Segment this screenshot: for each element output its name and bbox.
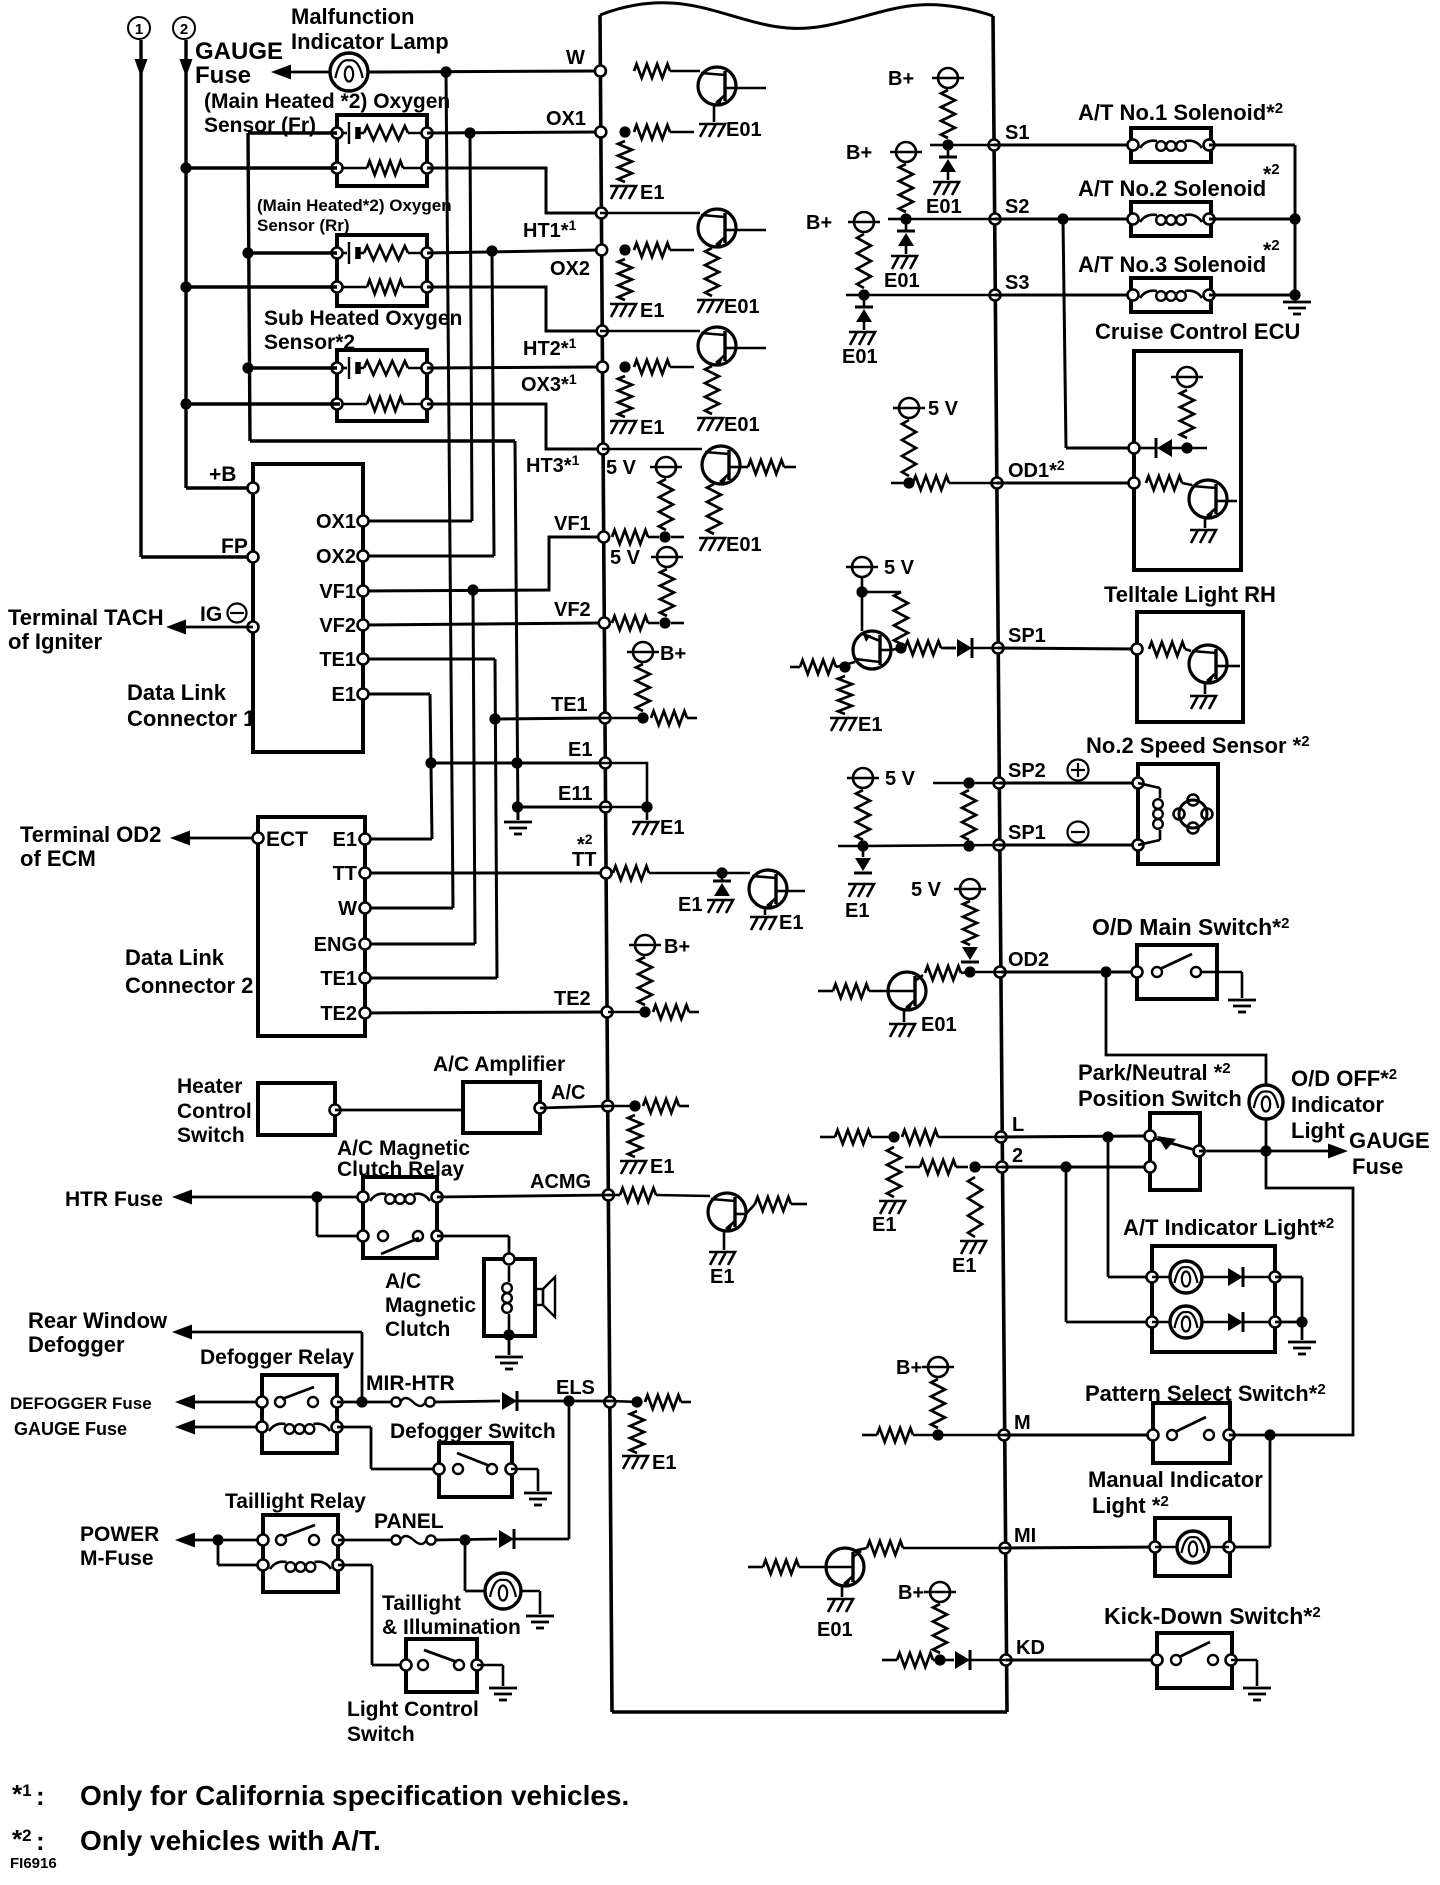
svg-text:Indicator Lamp: Indicator Lamp (291, 29, 449, 54)
svg-text:E01: E01 (726, 534, 762, 556)
resistor VF1 row (612, 530, 684, 544)
svg-text:OX1: OX1 (316, 511, 356, 533)
terminal ECM ACMG (530, 1171, 614, 1201)
wire kick-down gnd (1231, 1660, 1257, 1686)
resistor W row (634, 64, 700, 78)
wire SP2 to sensor (999, 782, 1138, 785)
wire O/D switch to ground (1201, 972, 1242, 998)
svg-text:Terminal TACH: Terminal TACH (8, 605, 164, 630)
footnote *1 (12, 1779, 629, 1811)
resistor L row outer (820, 1130, 892, 1144)
svg-text:5 V: 5 V (885, 768, 916, 790)
terminals A/C relay coil (358, 1192, 443, 1203)
label oxygen sensor 2 (257, 196, 452, 235)
terminal ECM OD2 (995, 949, 1050, 978)
svg-text:ELS: ELS (556, 1377, 595, 1399)
svg-text:B+: B+ (806, 212, 832, 234)
wire OX1 row (427, 132, 600, 133)
ground (light control) (489, 1688, 517, 1700)
lamp manual indicator (1155, 1531, 1229, 1563)
wire bus 1 (down to FP) (135, 40, 254, 557)
diode cruise (1140, 438, 1182, 458)
ground E1 (OX2) (610, 300, 664, 322)
label Data Link Connector 2 (125, 945, 253, 998)
ground E1 (Q6) (709, 1252, 735, 1288)
switch A/C relay (378, 1231, 423, 1254)
node KD (934, 1654, 945, 1665)
label Defogger Switch (390, 1420, 556, 1443)
terminal ECT (253, 828, 309, 851)
terminals taillight relay switch (258, 1535, 344, 1546)
wire HT1 jog (427, 168, 600, 213)
ground E01 (S2) (884, 246, 920, 292)
node SP1-/SP2 resistor bottom (963, 840, 974, 851)
wire M row external (1004, 1434, 1153, 1437)
wire Q8 emitter (903, 1010, 906, 1022)
node TE2 pullup (639, 1006, 650, 1017)
svg-text:Only for California specificat: Only for California specification vehicl… (80, 1780, 629, 1811)
svg-text:E1: E1 (332, 684, 356, 706)
resistor ELS row (612, 1395, 691, 1409)
node TE1 pullup (637, 712, 648, 723)
node gauge fuse (1260, 1145, 1271, 1156)
resistor Q8 base (818, 984, 888, 998)
svg-text:Defogger: Defogger (28, 1332, 125, 1357)
svg-text:& Illumination: & Illumination (382, 1616, 521, 1639)
wire Q11 emitter (1204, 683, 1207, 694)
wire light control gnd (477, 1665, 503, 1686)
node OD2 (964, 966, 975, 977)
node OX2 tap (486, 245, 497, 256)
node OD2 branch (1100, 966, 1111, 977)
svg-text:Heater: Heater (177, 1075, 242, 1098)
label Taillight & Illumination (382, 1592, 521, 1639)
source 5V (SP1) (846, 557, 915, 579)
ground E01 (Q4) (699, 534, 762, 556)
terminal ECM KD (1001, 1637, 1045, 1666)
resistor OX3 row (634, 360, 694, 374)
wire E11 row internal (600, 806, 647, 809)
wire ACMG row (437, 1195, 610, 1197)
wire gauge fuse row (1199, 1150, 1266, 1153)
svg-text:B+: B+ (896, 1357, 922, 1379)
node E11 internal (641, 801, 652, 812)
source B+ (TE2) (629, 935, 690, 1005)
node SP1 pullup top (856, 586, 867, 597)
wire Q2 collector (736, 229, 766, 232)
resistor KD row (882, 1653, 938, 1667)
wire sensor1 signal to common bus (248, 131, 337, 134)
node E1 DLC tap (425, 757, 436, 768)
coil solenoid 1 (1140, 141, 1202, 151)
terminal ECM HT2*1 (523, 326, 608, 361)
source B+ (TE1) (627, 642, 686, 711)
resistor OX1 pulldown (618, 141, 632, 182)
wire taillight lamp gnd (521, 1591, 540, 1614)
terminal amplifier out (535, 1103, 546, 1114)
Pattern select box (1153, 1403, 1230, 1463)
svg-text:PANEL: PANEL (374, 1510, 444, 1533)
Light control switch box (406, 1639, 477, 1692)
wire Q1 emitter (713, 105, 716, 122)
ground E1 (internal) (632, 817, 684, 839)
node ELS branch (563, 1395, 574, 1406)
wire MIL to W node (368, 71, 600, 72)
wire OX2 row (427, 250, 600, 253)
node E11 row junction (512, 801, 523, 812)
label GAUGE Fuse (right) (1349, 1128, 1430, 1179)
node solenoid2 gnd rail (1289, 213, 1300, 224)
terminal +B (248, 483, 259, 494)
label DEFOGGER Fuse (10, 1394, 152, 1413)
svg-text:Switch: Switch (177, 1124, 245, 1147)
label Heater Control Switch (177, 1075, 252, 1147)
Telltale box (1137, 612, 1243, 722)
label A/C Amplifier (433, 1053, 565, 1076)
svg-text:Park/Neutral *2: Park/Neutral *2 (1078, 1060, 1231, 1085)
wire OX3 row (427, 367, 600, 368)
oxygen sensor 1 heater (resistor) (337, 161, 427, 175)
svg-text:A/T Indicator Light*2: A/T Indicator Light*2 (1123, 1215, 1334, 1240)
svg-text:E01: E01 (921, 1014, 957, 1036)
label No.2 Speed Sensor*2 (1086, 733, 1310, 758)
svg-text:of ECM: of ECM (20, 846, 96, 871)
oxygen sensor 3 heater (resistor) (337, 397, 427, 411)
wire HTR branch (317, 1197, 363, 1236)
wire A/C relay to clutch (437, 1236, 509, 1259)
node Q7 base (839, 661, 850, 672)
resistor M row (862, 1428, 936, 1442)
wire Q3 collector (736, 347, 766, 350)
svg-text:E1: E1 (333, 829, 357, 851)
label Pattern Select Switch*2 (1085, 1381, 1326, 1406)
wire E1-DLC vertical (363, 694, 432, 839)
svg-text:IG: IG (200, 603, 222, 626)
wire Q1 collector (736, 87, 766, 90)
node OX1 in (619, 126, 630, 137)
speaker clutch symbol (536, 1277, 555, 1317)
terminal ECM TE2 (554, 988, 613, 1018)
node S2 clamp (888, 213, 912, 224)
ground E1 (OX3) (610, 417, 664, 439)
diode S1 clamp (939, 145, 957, 172)
node solenoid3 gnd (1289, 289, 1300, 300)
ground E01 (Q9) (817, 1599, 853, 1641)
svg-text:Taillight Relay: Taillight Relay (225, 1490, 366, 1513)
diode PANEL to ELS (499, 1529, 514, 1549)
oxygen sensor 2 box (337, 235, 427, 306)
ground E1 (Q5) (750, 912, 803, 934)
ground E01 (Q3) (697, 414, 760, 436)
svg-text:A/C Magnetic: A/C Magnetic (337, 1137, 470, 1160)
solenoid 3 box (1131, 278, 1211, 312)
terminals A/T indicator left (1147, 1272, 1158, 1328)
svg-text:(Main Heated*2) Oxygen: (Main Heated*2) Oxygen (257, 196, 452, 215)
diode SP1- clamp (854, 846, 872, 873)
Taillight relay box (263, 1515, 338, 1592)
svg-text:VF1: VF1 (319, 581, 356, 603)
wire L row (1001, 1136, 1150, 1137)
wire bus 2 (down to +B) (180, 40, 254, 488)
wire HT3 into Q4 (602, 448, 702, 451)
wire OD2 branch to lamp (1106, 972, 1266, 1085)
transistor Q1 (W) (698, 67, 736, 105)
wire GAUGE fuse arrow (271, 65, 330, 80)
svg-text:E1: E1 (952, 1255, 976, 1277)
lamp A/T indicator 1 (1152, 1261, 1228, 1293)
wire panel to taillight lamp (465, 1540, 486, 1591)
terminal ECM HT3*1 (526, 444, 609, 478)
oxygen sensor 1 sensor element (battery+resistor) (337, 122, 427, 144)
svg-text:Connector 2: Connector 2 (125, 973, 253, 998)
svg-text:OX2: OX2 (316, 546, 356, 568)
svg-text:E1: E1 (568, 739, 592, 761)
wire A/T gnd (1301, 1322, 1304, 1340)
terminal ECM M (999, 1412, 1031, 1441)
svg-text:E1: E1 (845, 900, 869, 922)
terminal ECM 2 (997, 1145, 1024, 1173)
wire OD2 row (970, 971, 1001, 974)
terminal ECM OX3*1 (521, 362, 608, 397)
wire sensor3 signal to common bus (248, 366, 337, 369)
ground (Q10) (1190, 530, 1216, 543)
wire OD1 to cruise (997, 482, 1134, 485)
svg-text:Malfunction: Malfunction (291, 4, 414, 29)
svg-text:5 V: 5 V (928, 398, 959, 420)
svg-text:E1: E1 (650, 1156, 674, 1178)
ground E1 (A/C) (620, 1156, 674, 1178)
wire sensor1 heater to bus2 (186, 166, 337, 169)
source 5V (OD2) (911, 879, 986, 945)
terminal DLC1 VF2 (319, 615, 368, 637)
wire TT row (365, 872, 607, 875)
terminal defogger switch (434, 1464, 517, 1475)
terminal telltale (1132, 644, 1143, 655)
wire sensor2 heater to bus2 (186, 285, 337, 288)
svg-text:TE1: TE1 (551, 694, 588, 716)
svg-text:E1: E1 (660, 817, 684, 839)
ground E1 (Q7) (830, 714, 882, 736)
ground E1 (L) (872, 1201, 905, 1236)
node 2 branch (1060, 1161, 1071, 1172)
transistor Q4 (HT3) (702, 446, 740, 484)
A/C magnetic clutch box (484, 1259, 535, 1336)
wire OX1 vertical (to DLC1) (363, 133, 472, 521)
wire M row (938, 1434, 1004, 1437)
wire gauge fuse arrow (defogger) (175, 1420, 262, 1435)
svg-text:VF1: VF1 (554, 513, 591, 535)
svg-text:TE2: TE2 (554, 988, 591, 1010)
coil taillight relay (270, 1562, 331, 1572)
wire KD row external (1006, 1659, 1157, 1662)
resistor Q8 collector (925, 966, 961, 980)
label IG (200, 603, 247, 626)
wire PANEL row (338, 1539, 497, 1540)
resistor ELS pulldown (630, 1411, 644, 1453)
terminal ECM VF1 (554, 513, 609, 543)
terminal ECM S3 (990, 272, 1030, 301)
svg-text:FI6916: FI6916 (10, 1855, 57, 1872)
node OX3 in (619, 361, 630, 372)
svg-text:Terminal OD2: Terminal OD2 (20, 822, 161, 847)
node power branch (212, 1534, 223, 1545)
terminal ECM E11 (558, 783, 611, 813)
node SP1- pullup (838, 840, 869, 851)
svg-text:A/C: A/C (551, 1082, 585, 1104)
wire amplifier to ECM A/C (540, 1106, 608, 1108)
svg-text:S2: S2 (1005, 196, 1029, 218)
oxygen sensor 3 sensor element (battery+resistor) (337, 357, 427, 379)
label A/T No.3 Solenoid*2 (1078, 237, 1280, 277)
diode KD (940, 1650, 1006, 1670)
coil speed sensor (1138, 783, 1163, 845)
ground (defogger switch) (524, 1493, 552, 1505)
wire rear window arrow (172, 1325, 362, 1340)
wire diode to ELS vertical (515, 1401, 569, 1539)
terminal DLC1 OX1 (316, 511, 369, 533)
resistor TT row (613, 866, 750, 880)
label Telltale Light RH (1104, 582, 1276, 607)
label HTR Fuse (65, 1188, 163, 1211)
svg-text:B+: B+ (888, 68, 914, 90)
svg-text:MI: MI (1014, 1525, 1036, 1547)
svg-text:E1: E1 (710, 1266, 734, 1288)
terminal cruise upper (1129, 443, 1140, 454)
wire sensor2 signal to common bus (248, 251, 337, 254)
svg-text:M-Fuse: M-Fuse (80, 1547, 154, 1570)
wire E11 row (518, 806, 601, 809)
svg-text:FP: FP (221, 535, 248, 558)
switch defogger (453, 1453, 497, 1474)
svg-text:E01: E01 (884, 270, 920, 292)
label Malfunction Indicator Lamp (291, 4, 449, 54)
terminal DLC2 E1 (333, 829, 371, 851)
svg-text:E1: E1 (872, 1214, 896, 1236)
wire IG arrow (Terminal TACH) (166, 620, 253, 635)
svg-text:Light Control: Light Control (347, 1698, 479, 1721)
resistor OX2 row (634, 243, 694, 257)
svg-text::: : (36, 1826, 45, 1856)
wire HT3 jog (427, 404, 602, 449)
node ELS in (631, 1396, 642, 1407)
label A/T Indicator Light*2 (1123, 1215, 1334, 1240)
wire Q5 emitter (764, 908, 767, 915)
fuse MIR-HTR (391, 1397, 434, 1406)
resistor A/C pulldown (628, 1115, 642, 1157)
svg-text:A/T No.3 Solenoid: A/T No.3 Solenoid (1078, 252, 1266, 277)
label +B (209, 463, 236, 486)
node common bus sensor2 (242, 247, 253, 258)
terminal DLC2 TE1 (320, 968, 370, 990)
svg-text:Kick-Down Switch*2: Kick-Down Switch*2 (1104, 1603, 1321, 1629)
resistor L row inner (902, 1130, 1001, 1144)
svg-text:1: 1 (135, 21, 143, 38)
terminal ECM HT1*1 (523, 208, 607, 243)
wire clutch gnd (508, 1335, 511, 1355)
node A/C in (629, 1100, 640, 1111)
wire Q5 collector (787, 890, 805, 893)
terminals solenoid 2 (1128, 214, 1215, 225)
terminal DLC2 W (338, 898, 370, 920)
wire L branch down (1108, 1137, 1152, 1277)
node VF2 pullup (659, 617, 670, 628)
coil solenoid 2 (1140, 215, 1202, 225)
diode A/T indicator 2 (1228, 1312, 1275, 1332)
label POWER M-Fuse (80, 1523, 159, 1570)
resistor OD1 row (913, 476, 997, 490)
wire HT2 jog (427, 287, 600, 331)
diode ELS feed (502, 1391, 517, 1411)
terminal DLC2 TT (333, 863, 371, 885)
svg-text:Telltale Light RH: Telltale Light RH (1104, 582, 1276, 607)
terminal kick-down (1152, 1655, 1237, 1666)
wire Q10 collector (1227, 500, 1237, 503)
wire S1 row (948, 144, 994, 147)
svg-text:Manual Indicator: Manual Indicator (1088, 1467, 1263, 1492)
resistor SP1 out (905, 641, 956, 655)
wire ENG vertical (VF1 node to DLC2-ENG) (365, 590, 475, 944)
P/N switch box (1150, 1113, 1200, 1190)
label Park/Neutral Position Switch (1078, 1060, 1242, 1111)
wire 2 row external (1002, 1166, 1150, 1169)
wire S1 to solenoid1 (994, 144, 1133, 147)
node VF1-ENG tap (467, 584, 478, 595)
wire lamp to gauge row (1265, 1119, 1268, 1150)
resistor ACMG row (610, 1188, 710, 1202)
wire power fuse arrow (175, 1533, 262, 1548)
svg-text:E01: E01 (817, 1619, 853, 1641)
svg-text:M: M (1014, 1412, 1031, 1434)
wire defogger fuse arrow (175, 1395, 262, 1410)
terminal ECM OX2 (550, 245, 607, 281)
svg-text:B+: B+ (846, 142, 872, 164)
terminals A/C relay switch (358, 1231, 443, 1242)
wire S3 to solenoid3 (995, 294, 1133, 297)
terminal ECM ELS (556, 1377, 615, 1408)
footnote *2 (12, 1824, 381, 1856)
node VF1 pullup (659, 531, 670, 542)
wire solenoid2 out (1209, 218, 1295, 221)
node 2 (969, 1161, 980, 1172)
label TT *2 (577, 831, 593, 856)
label A/C Magnetic Clutch (385, 1270, 476, 1341)
terminal ECM TE1 (551, 694, 610, 724)
wire VF1 row jog (363, 537, 600, 591)
wire diode to ELS (518, 1400, 612, 1403)
terminal ECM SP1 (upper) (993, 625, 1046, 654)
node 1 (circled) (128, 17, 150, 39)
svg-text:A/C Amplifier: A/C Amplifier (433, 1053, 565, 1076)
svg-text:SP2: SP2 (1008, 760, 1046, 782)
source B+ (S1) (888, 68, 964, 138)
DLC2 box (258, 817, 365, 1036)
svg-text:GAUGE: GAUGE (1349, 1128, 1430, 1153)
resistor Q7 base pulldown (838, 676, 852, 714)
terminals manual indicator (1150, 1542, 1235, 1553)
svg-text:5 V: 5 V (884, 557, 915, 579)
coil solenoid 3 (1140, 291, 1202, 301)
svg-text:Data Link: Data Link (127, 680, 227, 705)
label FI6916 (10, 1855, 57, 1872)
resistor Q6 collector (746, 1197, 807, 1214)
svg-text:Data Link: Data Link (125, 945, 225, 970)
node W junction (440, 66, 451, 77)
wire VF2 row (363, 623, 600, 625)
node OX2 in (619, 244, 630, 255)
svg-text:Light: Light (1291, 1118, 1345, 1143)
terminal IG (248, 622, 259, 633)
source B+ (S3) (806, 212, 880, 288)
